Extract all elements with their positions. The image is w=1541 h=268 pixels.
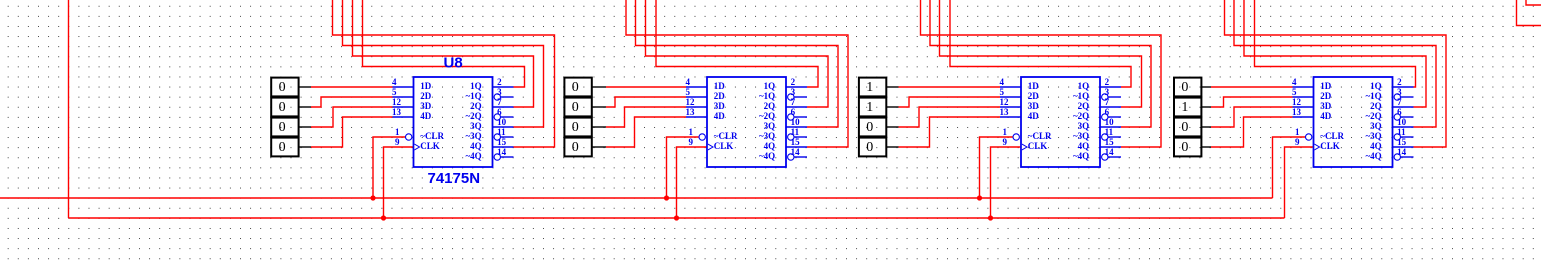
svg-text:10: 10 xyxy=(791,117,801,127)
pin labels xyxy=(1028,81,1089,161)
svg-text:0: 0 xyxy=(279,120,286,135)
svg-text:2D: 2D xyxy=(1320,91,1332,101)
svg-text:6: 6 xyxy=(497,107,502,117)
svg-text:1Q: 1Q xyxy=(1078,81,1090,91)
svg-text:2D: 2D xyxy=(1028,91,1040,101)
input constant switch stage3 bit2 value 1 xyxy=(859,98,899,117)
wire bit3 to 3D pin xyxy=(606,107,686,127)
wire 1Q pin2 output to top xyxy=(363,0,525,87)
svg-text:3Q: 3Q xyxy=(1078,121,1090,131)
svg-text:7: 7 xyxy=(1105,97,1110,107)
wire bit3 to 3D pin xyxy=(899,107,1001,127)
svg-text:4Q: 4Q xyxy=(470,141,482,151)
wire CLK pin9 to CLK bus xyxy=(384,147,414,218)
svg-text:1: 1 xyxy=(1295,127,1300,137)
svg-text:3D: 3D xyxy=(420,101,432,111)
svg-text:9: 9 xyxy=(689,137,694,147)
svg-text:3D: 3D xyxy=(1320,101,1332,111)
svg-text:11: 11 xyxy=(1105,127,1114,137)
input constant switch stage4 bit1 value 0 xyxy=(1174,78,1211,97)
svg-text:3Q: 3Q xyxy=(470,121,482,131)
IC U8 74175N quad D flip-flop xyxy=(393,77,514,167)
svg-text:4: 4 xyxy=(1292,77,1297,87)
svg-text:4D: 4D xyxy=(1320,111,1332,121)
svg-text:1Q: 1Q xyxy=(1370,81,1382,91)
svg-text:~1Q: ~1Q xyxy=(1073,91,1089,101)
svg-text:11: 11 xyxy=(497,127,506,137)
svg-text:15: 15 xyxy=(1397,137,1407,147)
svg-text:4: 4 xyxy=(686,77,691,87)
svg-text:10: 10 xyxy=(497,117,507,127)
svg-text:~1Q: ~1Q xyxy=(759,91,775,101)
svg-text:12: 12 xyxy=(1292,97,1302,107)
svg-text:CLK: CLK xyxy=(714,141,734,151)
svg-text:11: 11 xyxy=(1397,127,1406,137)
svg-text:0: 0 xyxy=(572,120,579,135)
svg-text:15: 15 xyxy=(791,137,801,147)
junction on CLR bus xyxy=(370,195,375,200)
svg-text:0: 0 xyxy=(1181,80,1188,95)
junction on CLK bus xyxy=(674,215,679,220)
input constant switch stage1 bit3 value 0 xyxy=(271,118,311,137)
svg-text:2: 2 xyxy=(1105,77,1110,87)
svg-text:4Q: 4Q xyxy=(764,141,776,151)
wire ~CLR pin1 to CLR bus xyxy=(1273,137,1306,198)
input constant switch stage3 bit4 value 0 xyxy=(859,138,899,157)
wire bit2 to 2D pin xyxy=(1211,97,1293,107)
pin numbers xyxy=(1000,77,1115,157)
svg-text:~3Q: ~3Q xyxy=(1073,131,1089,141)
wire bit1 to 1D pin4 xyxy=(606,86,686,88)
input constant switch stage3 bit3 value 0 xyxy=(859,118,899,137)
wire 4Q pin15 output to top xyxy=(1225,0,1447,147)
svg-text:74175N: 74175N xyxy=(428,170,481,187)
pin numbers xyxy=(686,77,801,157)
wire 3Q pin10 output to top xyxy=(930,0,1151,127)
svg-text:5: 5 xyxy=(686,87,691,97)
svg-text:~1Q: ~1Q xyxy=(466,91,482,101)
svg-text:13: 13 xyxy=(686,107,696,117)
svg-text:2: 2 xyxy=(1397,77,1402,87)
svg-text:1: 1 xyxy=(689,127,694,137)
svg-text:1: 1 xyxy=(866,80,873,95)
pin labels xyxy=(420,81,481,161)
svg-text:0: 0 xyxy=(866,140,873,155)
svg-text:9: 9 xyxy=(1295,137,1300,147)
wire CLK bus vertical from top left xyxy=(68,0,70,218)
svg-text:9: 9 xyxy=(1003,137,1008,147)
wire 3Q pin10 output to top xyxy=(343,0,544,127)
wire ~CLR pin1 to CLR bus xyxy=(373,137,405,198)
svg-text:CLK: CLK xyxy=(420,141,440,151)
svg-text:2: 2 xyxy=(791,77,796,87)
wire 2Q pin7 output to top xyxy=(646,0,829,107)
svg-text:CLK: CLK xyxy=(1320,141,1340,151)
wire bit3 to 3D pin xyxy=(311,107,393,127)
svg-text:2Q: 2Q xyxy=(1370,101,1382,111)
svg-text:4: 4 xyxy=(1000,77,1005,87)
svg-text:11: 11 xyxy=(791,127,800,137)
svg-text:1D: 1D xyxy=(1028,81,1040,91)
svg-text:10: 10 xyxy=(1397,117,1407,127)
svg-text:~4Q: ~4Q xyxy=(1366,151,1382,161)
IC U11 74175N quad D flip-flop xyxy=(1293,77,1414,167)
svg-text:~2Q: ~2Q xyxy=(466,111,482,121)
pin labels xyxy=(1320,81,1381,161)
svg-text:0: 0 xyxy=(572,80,579,95)
svg-text:15: 15 xyxy=(1105,137,1115,147)
svg-text:~2Q: ~2Q xyxy=(1366,111,1382,121)
wire 4Q pin15 output to top xyxy=(333,0,555,147)
svg-text:12: 12 xyxy=(686,97,696,107)
svg-text:~3Q: ~3Q xyxy=(466,131,482,141)
svg-text:2D: 2D xyxy=(714,91,726,101)
svg-text:~3Q: ~3Q xyxy=(759,131,775,141)
wire ~CLR pin1 to CLR bus xyxy=(667,137,699,198)
svg-text:1D: 1D xyxy=(420,81,432,91)
svg-text:4D: 4D xyxy=(714,111,726,121)
wire bit2 to 2D pin xyxy=(899,97,1001,107)
svg-text:2Q: 2Q xyxy=(470,101,482,111)
svg-text:~CLR: ~CLR xyxy=(420,131,444,141)
svg-text:3: 3 xyxy=(497,87,502,97)
wire 4Q pin15 output to top xyxy=(921,0,1162,147)
svg-text:5: 5 xyxy=(1000,87,1005,97)
svg-text:~CLR: ~CLR xyxy=(714,131,738,141)
svg-text:0: 0 xyxy=(866,120,873,135)
svg-text:1D: 1D xyxy=(1320,81,1332,91)
wire 1Q pin2 output to top xyxy=(1255,0,1416,87)
svg-text:~3Q: ~3Q xyxy=(1366,131,1382,141)
wire bit4 to 4D pin xyxy=(311,117,393,147)
svg-text:1: 1 xyxy=(1181,100,1188,115)
input constant switch stage4 bit4 value 0 xyxy=(1174,138,1211,157)
wire CLR bus (horizontal, lower left to stage 4) xyxy=(0,197,1273,199)
svg-text:14: 14 xyxy=(1105,147,1115,157)
svg-text:3Q: 3Q xyxy=(1370,121,1382,131)
svg-text:14: 14 xyxy=(1397,147,1407,157)
svg-text:1: 1 xyxy=(1003,127,1008,137)
svg-text:12: 12 xyxy=(1000,97,1010,107)
svg-text:10: 10 xyxy=(1105,117,1115,127)
pin numbers xyxy=(392,77,507,157)
svg-text:2Q: 2Q xyxy=(1078,101,1090,111)
svg-text:1Q: 1Q xyxy=(764,81,776,91)
input constant switch stage1 bit1 value 0 xyxy=(271,78,311,97)
wire cropped stage 5 feedback upper right outer xyxy=(1517,0,1541,26)
svg-text:4Q: 4Q xyxy=(1078,141,1090,151)
wire bit1 to 1D pin4 xyxy=(899,86,1001,88)
svg-text:1Q: 1Q xyxy=(470,81,482,91)
pin labels xyxy=(714,81,775,161)
junction on CLR bus xyxy=(977,195,982,200)
svg-text:15: 15 xyxy=(497,137,507,147)
svg-text:0: 0 xyxy=(279,100,286,115)
svg-text:3: 3 xyxy=(1105,87,1110,97)
svg-text:3Q: 3Q xyxy=(764,121,776,131)
svg-text:2D: 2D xyxy=(420,91,432,101)
svg-text:5: 5 xyxy=(392,87,397,97)
input constant switch stage2 bit1 value 0 xyxy=(564,78,606,97)
svg-text:4: 4 xyxy=(392,77,397,87)
svg-text:12: 12 xyxy=(392,97,402,107)
svg-text:U8: U8 xyxy=(444,54,463,71)
IC U9 74175N quad D flip-flop xyxy=(686,77,807,167)
svg-text:6: 6 xyxy=(1397,107,1402,117)
junction on CLR bus xyxy=(664,195,669,200)
svg-text:~4Q: ~4Q xyxy=(759,151,775,161)
wire 3Q pin10 output to top xyxy=(1234,0,1436,127)
pin numbers xyxy=(1292,77,1407,157)
svg-text:~CLR: ~CLR xyxy=(1028,131,1052,141)
svg-text:14: 14 xyxy=(497,147,507,157)
svg-text:5: 5 xyxy=(1292,87,1297,97)
svg-text:0: 0 xyxy=(1181,140,1188,155)
svg-text:7: 7 xyxy=(1397,97,1402,107)
wire 2Q pin7 output to top xyxy=(353,0,534,107)
wire bit4 to 4D pin xyxy=(1211,117,1293,147)
wire ~CLR pin1 to CLR bus xyxy=(980,137,1013,198)
wire 1Q pin2 output to top xyxy=(656,0,818,87)
svg-text:3: 3 xyxy=(791,87,796,97)
svg-text:~2Q: ~2Q xyxy=(1073,111,1089,121)
wire bit1 to 1D pin4 xyxy=(1211,86,1293,88)
input constant switch stage4 bit3 value 0 xyxy=(1174,118,1211,137)
svg-text:6: 6 xyxy=(791,107,796,117)
wire 2Q pin7 output to top xyxy=(940,0,1142,107)
wire CLK pin9 to CLK bus xyxy=(991,147,1022,218)
wire 1Q pin2 output to top xyxy=(950,0,1131,87)
IC U10 74175N quad D flip-flop xyxy=(1000,77,1121,167)
wire bit4 to 4D pin xyxy=(606,117,686,147)
wire bit1 to 1D pin4 xyxy=(311,86,393,88)
wire CLK bus (horizontal) xyxy=(69,217,1285,219)
svg-text:4Q: 4Q xyxy=(1370,141,1382,151)
svg-text:0: 0 xyxy=(1181,120,1188,135)
svg-text:14: 14 xyxy=(791,147,801,157)
wire 3Q pin10 output to top xyxy=(636,0,839,127)
input constant switch stage3 bit1 value 1 xyxy=(859,78,899,97)
input constant switch stage2 bit2 value 0 xyxy=(564,98,606,117)
svg-text:1D: 1D xyxy=(714,81,726,91)
svg-text:~1Q: ~1Q xyxy=(1366,91,1382,101)
input constant switch stage1 bit2 value 0 xyxy=(271,98,311,117)
svg-text:13: 13 xyxy=(1000,107,1010,117)
wire cropped stage 5 feedback upper right inner xyxy=(1526,0,1541,5)
input constant switch stage4 bit2 value 1 xyxy=(1174,98,1211,117)
wire bit4 to 4D pin xyxy=(899,117,1001,147)
svg-text:7: 7 xyxy=(791,97,796,107)
input constant switch stage1 bit4 value 0 xyxy=(271,138,311,157)
svg-text:~CLR: ~CLR xyxy=(1320,131,1344,141)
svg-text:2Q: 2Q xyxy=(764,101,776,111)
svg-text:1: 1 xyxy=(395,127,400,137)
svg-text:13: 13 xyxy=(1292,107,1302,117)
junction on CLK bus xyxy=(988,215,993,220)
input constant switch stage2 bit4 value 0 xyxy=(564,138,606,157)
wire bit2 to 2D pin xyxy=(311,97,393,107)
svg-text:CLK: CLK xyxy=(1028,141,1048,151)
svg-text:6: 6 xyxy=(1105,107,1110,117)
svg-text:3: 3 xyxy=(1397,87,1402,97)
svg-text:3D: 3D xyxy=(714,101,726,111)
svg-text:0: 0 xyxy=(279,140,286,155)
wire 2Q pin7 output to top xyxy=(1244,0,1426,107)
junction on CLK bus xyxy=(381,215,386,220)
svg-text:~2Q: ~2Q xyxy=(759,111,775,121)
svg-text:2: 2 xyxy=(497,77,502,87)
svg-text:13: 13 xyxy=(392,107,402,117)
svg-text:1: 1 xyxy=(866,100,873,115)
svg-text:0: 0 xyxy=(279,80,286,95)
svg-text:9: 9 xyxy=(395,137,400,147)
svg-text:7: 7 xyxy=(497,97,502,107)
wire bit2 to 2D pin xyxy=(606,97,686,107)
wire bit3 to 3D pin xyxy=(1211,107,1293,127)
svg-text:~4Q: ~4Q xyxy=(1073,151,1089,161)
svg-text:0: 0 xyxy=(572,100,579,115)
svg-text:4D: 4D xyxy=(420,111,432,121)
wire CLK pin9 to CLK bus xyxy=(1285,147,1314,218)
svg-text:~4Q: ~4Q xyxy=(466,151,482,161)
wire 4Q pin15 output to top xyxy=(626,0,848,147)
wire CLK pin9 to CLK bus xyxy=(677,147,708,218)
svg-text:4D: 4D xyxy=(1028,111,1040,121)
svg-text:0: 0 xyxy=(572,140,579,155)
svg-text:3D: 3D xyxy=(1028,101,1040,111)
input constant switch stage2 bit3 value 0 xyxy=(564,118,606,137)
